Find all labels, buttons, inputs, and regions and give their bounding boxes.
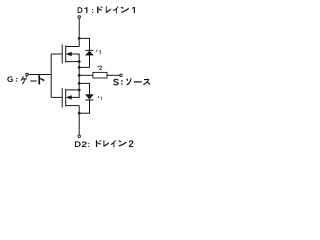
wire Q2 drain stub: [66, 105, 80, 107]
node dot lower diode anode: [78, 82, 80, 84]
diode D*1 upper cathode bar: [85, 49, 93, 51]
label S text: [113, 78, 150, 85]
terminal D2: [78, 135, 81, 138]
terminal S: [120, 74, 123, 77]
diode D*1 lower cathode bar: [85, 99, 93, 101]
label D2 text: [75, 140, 133, 147]
transistor Q1 (upper MOSFET) gate plate: [61, 45, 63, 64]
wire upper diode anode branch: [79, 66, 89, 68]
wire resistor right lead to S: [107, 74, 120, 76]
label a2 text: [97, 66, 102, 70]
label D1 text: [78, 6, 135, 13]
transistor Q2 body arrow: [66, 96, 71, 100]
wire common source node: [78, 62, 80, 90]
wire Q1 drain stub: [66, 46, 80, 48]
diode upper triangle: [85, 51, 93, 55]
wire resistor left lead: [79, 74, 93, 76]
wire Q1 body stub: [71, 54, 79, 62]
node dot lower diode cathode: [78, 112, 80, 114]
wire top branch to diode: [79, 38, 89, 50]
wire D2 drop: [78, 106, 80, 135]
node dot upper diode anode: [78, 66, 80, 68]
resistor *2 body: [93, 72, 107, 78]
wire Q2 body stub: [71, 90, 79, 98]
wire G lead: [28, 74, 51, 76]
wire Q2 source stub: [66, 89, 80, 91]
node dot Q2 source: [78, 89, 80, 91]
transistor Q1 body arrow: [66, 52, 71, 56]
wire Q1 source stub: [66, 61, 80, 63]
label G text: [7, 75, 45, 84]
node dot Q1 source: [78, 60, 80, 62]
wire gate bus: [50, 54, 52, 97]
node dot top branch: [78, 37, 80, 39]
diode lower triangle: [85, 95, 93, 100]
terminal D1: [78, 16, 81, 19]
transistor Q2 channel: [65, 89, 67, 107]
terminal G: [26, 73, 29, 76]
label a3 text: [98, 96, 102, 100]
label a1 text: [96, 50, 101, 55]
wire Q2 gate lead: [51, 96, 62, 98]
wire upper diode anode lead: [89, 55, 91, 67]
wire lower diode anode branch: [79, 83, 89, 94]
transistor Q2 (lower MOSFET) gate plate: [61, 88, 63, 108]
transistor Q1 channel: [65, 45, 67, 62]
wire Q1 gate lead: [51, 53, 62, 55]
wire D1 drop: [78, 18, 80, 46]
node dot resistor branch: [78, 74, 80, 76]
wire lower diode cathode lead: [79, 100, 89, 113]
